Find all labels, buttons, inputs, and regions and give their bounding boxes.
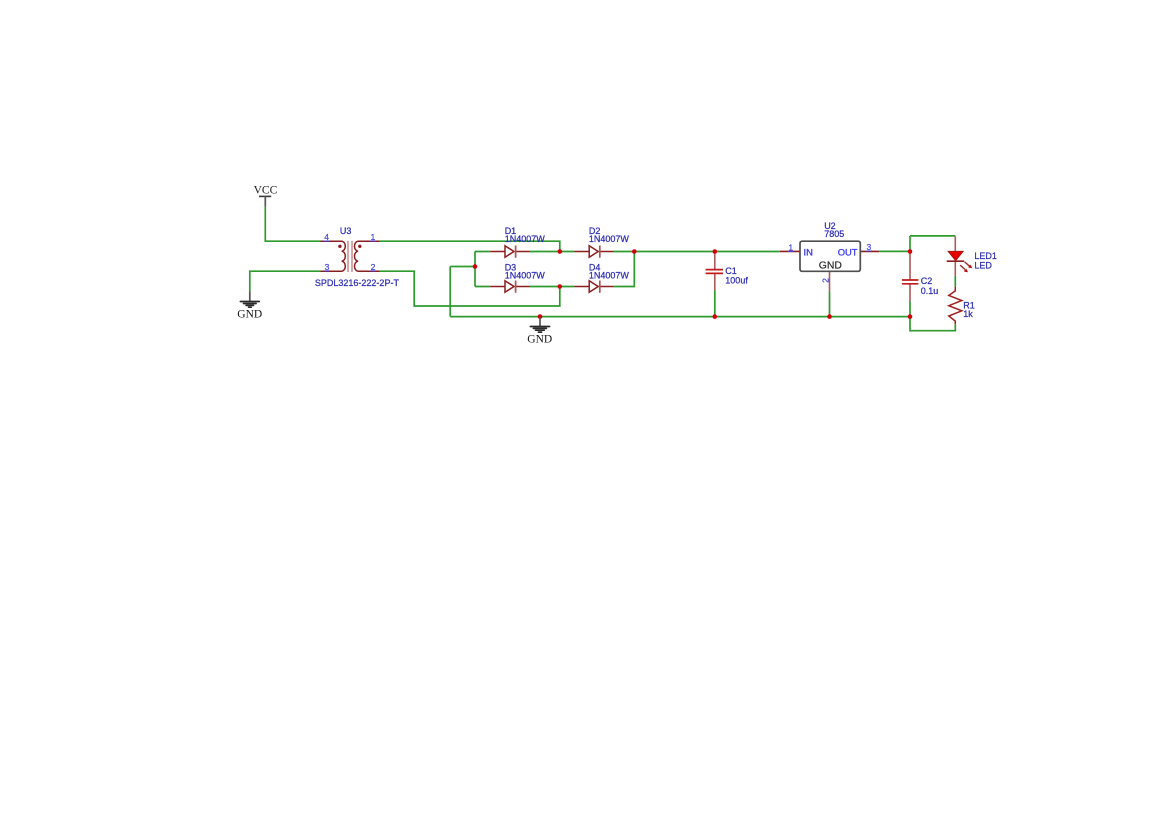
svg-text:1N4007W: 1N4007W	[505, 234, 546, 244]
svg-text:4: 4	[324, 232, 329, 242]
svg-text:C2: C2	[921, 276, 933, 286]
svg-text:LED1: LED1	[974, 251, 997, 261]
svg-text:GND: GND	[237, 308, 262, 320]
svg-text:0.1u: 0.1u	[921, 286, 939, 296]
svg-text:GND: GND	[819, 260, 842, 271]
svg-text:SPDL3216-222-2P-T: SPDL3216-222-2P-T	[315, 278, 400, 288]
svg-text:1: 1	[371, 232, 376, 242]
svg-text:3: 3	[325, 262, 330, 272]
svg-text:U3: U3	[340, 226, 352, 236]
svg-text:1N4007W: 1N4007W	[589, 234, 630, 244]
svg-text:2: 2	[371, 262, 376, 272]
svg-text:C1: C1	[725, 266, 737, 276]
svg-text:7805: 7805	[824, 229, 844, 239]
svg-text:1N4007W: 1N4007W	[589, 270, 630, 280]
svg-text:2: 2	[821, 278, 831, 283]
svg-text:OUT: OUT	[838, 246, 858, 257]
svg-text:100uf: 100uf	[725, 276, 748, 286]
svg-text:VCC: VCC	[254, 185, 278, 197]
svg-text:1k: 1k	[963, 309, 973, 319]
svg-text:3: 3	[867, 242, 872, 252]
svg-text:LED: LED	[974, 260, 992, 270]
svg-text:1: 1	[788, 242, 793, 252]
svg-text:GND: GND	[527, 333, 552, 345]
svg-text:IN: IN	[804, 246, 813, 257]
svg-text:1N4007W: 1N4007W	[505, 270, 546, 280]
